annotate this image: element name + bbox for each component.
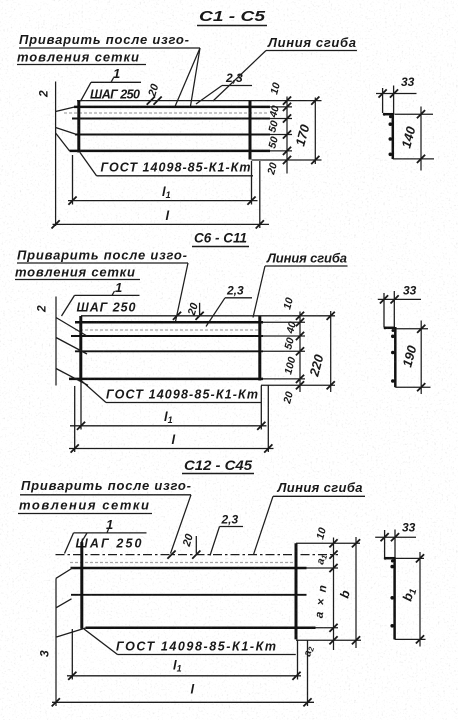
bend label underline d3 — [273, 495, 365, 497]
dim 20 tick a — [147, 97, 155, 105]
wire 1 d2 — [75, 321, 263, 324]
chain dimension line d3 — [333, 538, 335, 651]
bend line with extension to 170 dim — [77, 100, 322, 102]
wire 4 — [70, 150, 271, 153]
chain tick bend d2 — [296, 312, 304, 320]
170 tick bottom — [311, 156, 319, 164]
s1 wire dot 4 — [389, 153, 393, 157]
l1 tick right d3 — [292, 672, 300, 680]
chain tick w1 d2 — [296, 318, 304, 326]
s3 bent tip piece — [384, 557, 395, 560]
chain tick w3 d3 — [329, 624, 337, 632]
wire 3 extension d3 — [316, 627, 339, 629]
chain tick bottom d2 — [296, 381, 304, 389]
wire 2 d2 — [71, 335, 263, 337]
left extension line (pos.2) down to dim l — [55, 82, 57, 227]
s2 dim line 33 — [378, 298, 421, 300]
GOST flag leader — [80, 153, 97, 176]
l1 tick left d2 — [77, 422, 85, 430]
extension l right d3 — [307, 641, 309, 707]
s3 33 tick left — [381, 533, 389, 541]
chain dimension line — [286, 97, 288, 174]
SHAG flag pointer to bar top d3 — [81, 533, 87, 543]
s3 b1 tick top — [416, 554, 424, 562]
note line 1 underline d3 — [20, 494, 191, 496]
wire 3 extension d2 — [263, 350, 305, 352]
chain tick bend — [283, 97, 291, 105]
s2 wire dot 4 — [391, 379, 395, 383]
label 2,3 leader — [196, 86, 222, 105]
note leader d3 — [171, 495, 192, 554]
label 2,3 underline d3 — [220, 526, 244, 528]
GOST flag underline d3 — [118, 654, 296, 656]
extension for l1 left — [72, 155, 74, 205]
wire 4 d2 — [69, 378, 263, 381]
chain tick w4 — [283, 147, 291, 155]
title underline — [197, 25, 267, 27]
break slant bottom — [56, 133, 70, 151]
170 tick top — [311, 97, 319, 105]
break slant middle — [56, 128, 76, 135]
dim 20 tick b d2 — [173, 312, 181, 320]
s3 bottom extension — [395, 638, 426, 640]
wire 2 — [72, 118, 270, 120]
chain tick w3 d2 — [296, 347, 304, 355]
s2 bent tip piece — [384, 327, 395, 330]
ghost thin line d3 — [70, 562, 294, 564]
note line 2 underline — [17, 64, 146, 66]
bend label underline — [266, 50, 357, 52]
extension l1 left d2 — [80, 381, 82, 430]
wire 3 d3 — [86, 627, 316, 630]
bottom edge extension d2 — [261, 384, 335, 386]
dim 20 tick a d2 — [196, 312, 204, 320]
dim line l — [53, 223, 270, 225]
l1 tick right d2 — [257, 422, 265, 430]
label 2,3 leader d2 — [206, 298, 225, 327]
s1 dim line 140 — [420, 107, 422, 171]
chain tick w4 d2 — [296, 375, 304, 383]
top extension (bar tips) d3 — [296, 542, 360, 544]
s1 33 tick right — [390, 89, 398, 97]
s3 bent tip dot — [384, 557, 387, 560]
note line 2 underline d3 — [18, 513, 152, 515]
s3 b1 tick bottom — [416, 635, 424, 643]
s2 190 tick bottom — [417, 383, 425, 391]
s2 wire dot 3 — [391, 351, 395, 355]
s1 bent tip piece — [383, 113, 393, 116]
SHAG flag top edge — [91, 81, 141, 83]
s2 190 tick top — [417, 325, 425, 333]
label 2,3 underline — [222, 85, 252, 87]
left break edge and extension to l d3 — [55, 578, 57, 706]
pos.1 pointer tick — [111, 78, 114, 83]
bend label leader — [213, 51, 266, 102]
left break edge vertical d2 — [55, 297, 57, 386]
right transverse bar d2 — [258, 316, 261, 381]
s2 wire dot 1 — [392, 329, 395, 332]
left transverse bar — [77, 101, 80, 153]
dim 20 extension d3 — [195, 536, 197, 554]
chain tick w1 d3 — [329, 564, 337, 572]
extension l1 right d3 — [297, 640, 299, 680]
extension for l right — [259, 161, 261, 228]
overall dim line 220 — [330, 311, 332, 392]
title underline d2 — [192, 246, 249, 248]
s3 mesh edge vertical — [393, 557, 396, 639]
dim line l1 d2 — [70, 425, 267, 427]
dim line l1 d3 — [67, 675, 301, 677]
label 2,3 underline d2 — [225, 297, 252, 299]
SHAG flag top edge d2 — [75, 294, 140, 296]
bend label underline d2 — [265, 265, 348, 267]
bend label leader d3 — [254, 496, 274, 554]
note leader d2 — [176, 263, 189, 322]
bottom edge extension line — [252, 159, 322, 161]
l tick left — [52, 220, 60, 228]
chain tick w2 d2 — [296, 332, 304, 340]
label 2,3 leader d3 — [210, 527, 220, 556]
s1 mesh edge vertical — [392, 113, 395, 159]
s2 bent tip dot — [384, 327, 387, 330]
SHAG flag top edge d3 — [74, 532, 147, 534]
break slant middle d3 — [56, 599, 72, 608]
ghost thin line d2 — [75, 329, 261, 331]
chain tick bottom — [283, 156, 291, 164]
break slant c d2 — [56, 369, 88, 386]
overall dim line b — [355, 537, 357, 648]
220 tick bottom — [327, 381, 335, 389]
wire 1 d3 — [71, 567, 307, 570]
s3 dim line b1 — [419, 552, 421, 647]
dim 20 tick b d3 — [167, 551, 175, 559]
break slant top d3 — [56, 568, 73, 578]
s2 top extension — [396, 328, 428, 330]
s3 wire dot 3 — [390, 596, 394, 600]
break slant bottom d3 — [57, 628, 86, 637]
chain tick bartip d3 — [329, 539, 337, 547]
s1 extension left — [382, 88, 384, 113]
extension l1 right d2 — [260, 386, 262, 430]
wire 3 — [75, 134, 270, 136]
bend line d3 (dashed) — [56, 554, 339, 556]
s2 extension right — [393, 291, 395, 328]
s2 bottom extension — [395, 386, 430, 388]
s1 bent tip dot — [383, 113, 386, 116]
GOST flag underline d2 — [106, 402, 261, 404]
wire 1 extension — [270, 106, 292, 108]
title underline d3 — [182, 473, 254, 475]
s2 33 tick left — [380, 295, 388, 303]
s2 wire dot 2 — [391, 335, 395, 339]
220 tick top — [327, 312, 335, 320]
l1 tick left — [68, 197, 76, 205]
SHAG flag left slant leader — [81, 82, 92, 101]
s2 extension left — [383, 293, 385, 327]
chain tick w1 — [283, 103, 291, 111]
l tick right d3 — [303, 698, 311, 706]
dim 20 tick a d3 — [192, 551, 200, 559]
left transverse bar d2 — [79, 316, 82, 381]
s3 33 tick right — [391, 533, 399, 541]
s1 wire dot 3 — [389, 137, 393, 141]
s1 top extension — [395, 113, 434, 115]
right transverse bar d3 — [295, 543, 298, 639]
l tick right — [256, 220, 264, 228]
s1 33 tick left — [379, 89, 387, 97]
s1 bottom extension — [393, 158, 434, 160]
s3 dim line 33 — [375, 536, 416, 538]
wire 4 extension d2 — [263, 378, 305, 380]
GOST flag underline — [97, 175, 254, 177]
b tick bottom — [352, 636, 360, 644]
s1 140 tick top — [417, 110, 425, 118]
note line 1 underline d2 — [17, 262, 188, 264]
wire 2 d3 — [71, 594, 307, 596]
wire 1 extension d3 — [307, 567, 339, 569]
SHAG flag left slant d2 — [62, 295, 75, 316]
chain tick bottom d3 — [329, 636, 337, 644]
wire 1 extension d2 — [263, 321, 305, 323]
extension l right d2 — [267, 386, 269, 453]
s1 140 tick bottom — [417, 155, 425, 163]
wire 4 extension — [270, 150, 292, 152]
chain tick w3 — [283, 130, 291, 138]
extension l left d2 — [74, 386, 76, 452]
s2 mesh edge vertical — [394, 327, 397, 387]
s1 extension right — [393, 86, 395, 115]
chain tick bend d3 — [329, 551, 337, 559]
dim line l d2 — [69, 448, 274, 450]
bend label leader d2 — [253, 266, 265, 318]
note leader B — [191, 48, 201, 106]
s1 wire dot 1 — [389, 115, 392, 118]
b tick top — [352, 539, 360, 547]
left transverse bar d3 — [80, 542, 83, 629]
bend line d2 with extension — [81, 315, 335, 317]
SHAG flag left slant d3 — [65, 533, 74, 554]
break slant b d2 — [56, 338, 87, 355]
s1 dim line 33 — [376, 93, 417, 95]
dim 20 extension d2 — [199, 303, 201, 316]
l tick left d3 — [52, 698, 60, 706]
wire 3 extension — [270, 134, 292, 136]
dim 20 tick b — [154, 97, 162, 105]
note line 2 underline d2 — [15, 279, 140, 281]
overall dim line 170 — [314, 98, 316, 165]
note line 1 underline — [19, 47, 200, 49]
note leader A — [175, 48, 200, 107]
extension for l1 right — [251, 161, 253, 205]
l1 tick left d3 — [68, 672, 76, 680]
GOST flag leader d2 — [82, 381, 107, 403]
s3 wire dot 4 — [390, 624, 394, 628]
ghost thin line — [64, 112, 268, 114]
dim line l1 — [68, 200, 258, 202]
wire 2 extension — [270, 118, 292, 120]
s3 extension right — [394, 530, 396, 559]
l tick left d2 — [71, 444, 79, 452]
dim line l d3 — [52, 701, 314, 703]
bottom extension d3 — [296, 639, 361, 641]
GOST flag leader d3 — [84, 629, 118, 655]
l tick right d2 — [264, 444, 272, 452]
break slant top — [56, 107, 75, 112]
s3 extension left — [384, 530, 386, 558]
s2 dim line 190 — [420, 321, 422, 395]
break slant a d2 — [56, 318, 87, 337]
s3 wire dot 2 — [390, 565, 394, 569]
l1 tick right — [247, 197, 255, 205]
extension l1 left d3 — [71, 629, 73, 680]
right transverse bar — [249, 101, 252, 160]
pos.1 pointer tick d2 — [112, 291, 115, 295]
s2 33 tick right — [391, 295, 399, 303]
chain tick w2 — [283, 114, 291, 122]
s1 wire dot 2 — [389, 122, 393, 126]
wire 3 d2 — [75, 350, 263, 352]
wire 2 extension d2 — [263, 335, 305, 337]
chain dimension line d2 — [299, 312, 301, 393]
s3 wire dot 1 — [391, 560, 394, 563]
wire 1 (longitudinal) — [74, 106, 270, 109]
pos.1 pointer tick d3 — [107, 529, 109, 533]
s3 top extension — [396, 557, 425, 559]
